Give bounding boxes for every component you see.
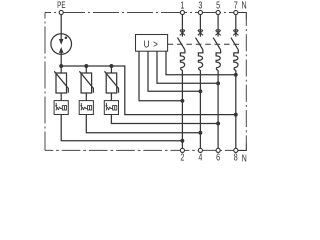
node bus to N pole tap [234, 113, 238, 117]
disconnector device FD2 [79, 101, 93, 115]
svg-text:6: 6 [216, 151, 220, 163]
U> sense wire to pole 4 [166, 51, 236, 75]
U> sense wire to pole 3 [157, 51, 218, 83]
node bus / varistor 3 tap [109, 64, 113, 68]
pole 3 conductor [217, 70, 219, 148]
terminal 4 [198, 148, 202, 152]
node pole 3 / sense junction [216, 81, 220, 85]
terminal 2 [180, 148, 184, 152]
wire terminal 1 to breaker [181, 15, 183, 37]
terminal 1 [180, 10, 184, 14]
spark gap F1 trigger dot [65, 37, 68, 40]
wire varistor RV2 to disconnector [85, 93, 87, 101]
wire PE terminal to spark gap [60, 15, 62, 34]
node pole 2 / sense junction [198, 89, 202, 93]
thermal release pole 4 [234, 50, 239, 70]
varistor RV2 [79, 71, 93, 93]
U> sense wire to pole 1 [139, 51, 182, 101]
breaker contact X pole 3 [216, 30, 221, 36]
svg-text:1: 1 [180, 0, 184, 11]
varistor RV3 [105, 71, 119, 93]
wire disconnector FD1 to pole 1 [61, 115, 182, 141]
N conductor right edge (dash-dot) [245, 20, 247, 144]
breaker blade pole 2 [196, 38, 203, 50]
disconnector device FD3 [104, 101, 118, 115]
N conductor corner top-right (solid) [236, 13, 247, 20]
svg-text:PE: PE [57, 0, 65, 10]
device boundary bottom (dash-dot) [45, 149, 236, 151]
wire varistor RV3 to disconnector [110, 93, 112, 101]
wire bus to varistor RV3 [110, 66, 112, 73]
pole 1 conductor [181, 70, 183, 148]
mechanical linkage (dashed) [168, 43, 241, 45]
svg-text:N: N [242, 152, 247, 164]
svg-text:N: N [242, 0, 247, 11]
svg-text:3: 3 [198, 0, 202, 11]
terminal 3 [198, 10, 202, 14]
device boundary left (dash-dot) [44, 13, 46, 151]
svg-text:U>: U> [144, 37, 159, 49]
node pole 2 / varistor branch junction [198, 131, 202, 135]
svg-text:7: 7 [234, 0, 238, 11]
terminal 8 [234, 148, 238, 152]
spark gap F1 lower electrode arrow [59, 47, 64, 53]
wire terminal 5 to breaker [217, 15, 219, 37]
N conductor corner bottom-right (solid) [236, 144, 247, 151]
terminal 7 [234, 10, 238, 14]
pole 4 conductor [235, 70, 237, 148]
thermal release pole 2 [198, 50, 203, 70]
device boundary top (dash-dot) [45, 12, 236, 14]
breaker blade pole 4 [231, 38, 238, 50]
breaker contact X pole 2 [198, 30, 203, 36]
U> sense wire to pole 2 [148, 51, 200, 91]
breaker contact X pole 4 [233, 30, 238, 36]
wire terminal 3 to breaker [199, 15, 201, 37]
N' bus wire [61, 66, 236, 115]
thermal release pole 1 [180, 50, 185, 70]
terminal 5 [216, 10, 220, 14]
terminal 6 [216, 148, 220, 152]
disconnector device FD1 [54, 101, 68, 115]
wire bus to varistor RV1 [60, 66, 62, 73]
node pole 4 / sense junction [234, 73, 238, 77]
wire bus to varistor RV2 [85, 66, 87, 73]
svg-text:8: 8 [234, 151, 238, 163]
thermal release pole 3 [216, 50, 221, 70]
breaker contact X pole 1 [180, 30, 185, 36]
svg-text:4: 4 [198, 151, 202, 163]
svg-text:2: 2 [180, 151, 184, 163]
svg-text:5: 5 [216, 0, 220, 11]
node pole 1 / sense junction [180, 99, 184, 103]
node bus / spark gap junction [59, 64, 63, 68]
terminal PE [59, 10, 63, 14]
breaker blade pole 1 [178, 38, 185, 50]
varistor RV1 [54, 71, 68, 93]
node bus / varistor 2 tap [84, 64, 88, 68]
spark gap F1 body [51, 34, 72, 55]
spark gap F1 upper electrode arrow [60, 34, 62, 40]
wire terminal 7 to breaker [235, 15, 237, 37]
breaker blade pole 3 [213, 38, 220, 50]
wire disconnector FD3 to pole 3 [111, 115, 218, 124]
node pole 1 / varistor branch junction [180, 139, 184, 143]
wire varistor RV1 to disconnector [60, 93, 62, 101]
node pole 3 / varistor branch junction [216, 122, 220, 126]
pole 2 conductor [199, 70, 201, 148]
wire disconnector FD2 to pole 2 [86, 115, 200, 133]
voltage monitor U1 (U>) [136, 35, 168, 52]
